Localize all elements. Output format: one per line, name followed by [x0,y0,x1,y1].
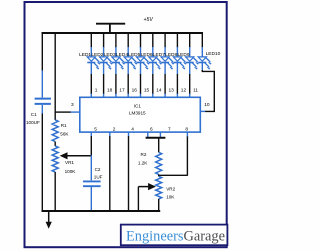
svg-text:100UF: 100UF [26,120,40,125]
svg-text:LED2: LED2 [91,52,103,58]
VR2 wiper arrow [138,186,150,188]
svg-text:100K: 100K [65,169,77,174]
LED LED1 [87,47,100,74]
svg-text:LED8: LED8 [165,52,177,58]
wire pin 3 to IC [55,111,71,113]
wire LED5 cathode to IC pin [140,74,142,94]
wire pin 5 down to VR1 wiper junction [90,132,92,136]
wire LED10 anode from rail corner [201,32,203,48]
svg-text:VR2: VR2 [166,186,175,191]
svg-text:LED7: LED7 [153,52,165,58]
wire pins 6-7 junction bar [146,137,166,139]
svg-text:56K: 56K [60,131,69,136]
svg-text:LED9: LED9 [178,52,190,58]
wire LED6 cathode to IC pin [152,74,154,94]
resistor R1 [52,120,58,142]
wire LED3 anode from rail [115,32,117,48]
wire LED8 cathode to IC pin [176,74,178,94]
LED LED7 [161,47,174,74]
svg-text:13: 13 [169,88,175,94]
wire LED1 anode from rail [90,32,92,48]
wire LED9 anode from rail [189,32,191,48]
svg-text:5: 5 [94,127,97,133]
svg-text:LED4: LED4 [116,52,128,58]
svg-text:11: 11 [193,88,198,94]
svg-text:LED3: LED3 [104,52,116,58]
wire LED9 cathode to IC pin [189,74,191,94]
wire LED1 cathode to IC pin [90,74,92,94]
svg-text:C1: C1 [31,112,37,117]
wire LED3 cathode to IC pin [115,74,117,94]
capacitor C1 [35,70,51,114]
border frame [25,2,227,247]
wire LED4 cathode to IC pin [127,74,129,94]
svg-text:15: 15 [144,88,150,94]
svg-text:6: 6 [150,127,153,133]
svg-text:LED6: LED6 [141,52,153,58]
svg-text:EngineersGarage: EngineersGarage [126,229,225,245]
svg-text:10K: 10K [166,194,175,199]
LED LED8 [173,47,186,74]
svg-text:3: 3 [71,102,74,108]
wire C1 to ground rail [41,114,43,211]
wire LED8 anode from rail [176,32,178,48]
wire LED7 anode from rail [164,32,166,48]
wire pin 4 to ground rail [128,132,130,136]
LED LED3 [112,47,125,74]
LED LED10 [198,47,211,71]
potentiometer VR1 [52,146,58,172]
LED LED9 [186,47,199,74]
svg-text:LED10: LED10 [206,51,221,57]
svg-text:R2: R2 [141,152,147,157]
EngineersGarage logo box [121,225,228,246]
wire pins 6,7 stubs [148,132,161,137]
VR1 wiper arrow [66,155,91,157]
svg-text:12: 12 [181,88,187,94]
svg-text:1.2K: 1.2K [138,161,148,166]
svg-text:8: 8 [185,127,188,133]
wire LED7 cathode to IC pin [164,74,166,94]
wire LED10 cathode to IC pin 10 [202,70,214,111]
svg-text:LM3915: LM3915 [129,111,146,116]
+5V supply terminal [96,24,125,33]
svg-text:VR1: VR1 [65,160,74,165]
svg-text:16: 16 [132,88,138,94]
LED LED6 [149,47,162,74]
LED LED4 [124,47,137,74]
svg-text:4: 4 [131,127,134,133]
wire LED2 anode from rail [103,32,105,48]
wire R2-VR2 junction to pin 8 [159,136,188,176]
wire LED4 anode from rail [127,32,129,48]
wire pin 2 to ground rail [109,132,111,136]
wire LED5 anode from rail [140,32,142,48]
svg-text:1: 1 [95,88,98,94]
svg-text:IC1: IC1 [134,104,142,109]
wire C1 branch from rail [41,32,43,71]
resistor R2 [156,152,162,174]
ground rail [42,210,161,212]
svg-text:10: 10 [204,102,210,108]
wire LED6 anode from rail [152,32,154,48]
wire bar to R2 [158,139,160,153]
svg-text:14: 14 [156,88,162,94]
op-amp IC1 LM3915 [80,97,201,132]
wire R1 branch from rail [54,32,56,120]
ground arrow [48,211,50,223]
LED LED5 [136,47,149,74]
capacitor C2 [83,155,101,211]
svg-text:+5V: +5V [144,17,154,23]
svg-text:7: 7 [168,127,171,133]
wire R1 to VR1 [54,142,56,146]
svg-text:1UF: 1UF [94,174,103,179]
wire VR1 to ground rail [54,172,56,211]
svg-text:LED5: LED5 [128,52,140,58]
svg-text:2: 2 [113,127,116,133]
svg-text:R1: R1 [61,123,67,128]
potentiometer VR2 [158,174,160,176]
wire LED2 cathode to IC pin [103,74,105,94]
svg-text:18: 18 [107,88,113,94]
svg-text:17: 17 [119,88,125,94]
wire +5V top rail [42,32,204,34]
svg-text:C2: C2 [95,167,101,172]
svg-text:LED1: LED1 [79,52,91,58]
LED LED2 [100,47,113,74]
